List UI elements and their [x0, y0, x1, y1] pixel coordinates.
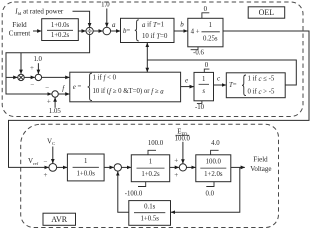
- wire Ifd-rated to divider top: [73, 11, 90, 27]
- wire summer2 to block B: [122, 166, 132, 168]
- wire Efd into summer3 top: [182, 142, 184, 164]
- svg-text:1+0.2s: 1+0.2s: [51, 32, 70, 39]
- summer circle 3: [179, 164, 186, 171]
- wire squared branch into multiplier X left: [6, 76, 17, 78]
- OEL label box: [248, 7, 285, 18]
- svg-text:a if T=1: a if T=1: [142, 21, 164, 28]
- svg-text:s: s: [202, 88, 205, 95]
- svg-text:1: 1: [149, 159, 152, 166]
- block D 0.1s/(1+0.5s): [129, 201, 171, 226]
- svg-text:0.0: 0.0: [206, 190, 215, 197]
- svg-text:100.0: 100.0: [175, 135, 191, 142]
- wire 1.0 into multiplier: [106, 9, 108, 27]
- limit upper 0: [204, 69, 209, 72]
- svg-text:-100.0: -100.0: [125, 190, 143, 197]
- svg-text:−: −: [30, 80, 34, 88]
- summer circle lower (1.05 comparison): [52, 91, 58, 97]
- svg-text:+: +: [47, 98, 51, 106]
- block integrator 1/s: [194, 72, 214, 100]
- limit lower -10: [197, 101, 202, 104]
- svg-text:1.0: 1.0: [101, 1, 110, 8]
- svg-text:b=: b=: [123, 27, 130, 34]
- svg-text:1+2.0s: 1+2.0s: [204, 171, 223, 178]
- svg-text:10 if T=0: 10 if T=0: [142, 33, 168, 40]
- svg-text:1+0.2s: 1+0.2s: [141, 171, 160, 178]
- wire 1.05 into lower summer: [54, 98, 56, 108]
- svg-text:0: 0: [205, 62, 209, 69]
- wire feedback block D to summer2 bottom: [118, 172, 129, 213]
- block OEL PI 4+1/0.25s: [188, 18, 223, 47]
- svg-text:Voltage: Voltage: [250, 165, 271, 173]
- svg-text:10 if (f ≥ 0 &T=0) or f ≥ a: 10 if (f ≥ 0 &T=0) or f ≥ a: [93, 88, 165, 95]
- svg-text:Ifd at rated power: Ifd at rated power: [14, 8, 64, 16]
- svg-text:4 +: 4 +: [191, 29, 200, 36]
- limit lower 0.0: [206, 182, 214, 187]
- summer circle 2: [114, 164, 121, 171]
- wire X to summer: [24, 76, 35, 78]
- block C 100/(1+2.0s): [196, 155, 231, 182]
- svg-text:1.05: 1.05: [49, 108, 61, 115]
- limit upper 100.0: [148, 150, 156, 155]
- svg-text:T=: T=: [229, 82, 237, 89]
- wire summer to block e: [42, 76, 70, 78]
- limit lower -100.0: [138, 182, 146, 187]
- svg-text:+: +: [174, 171, 178, 179]
- block e logic: [70, 72, 181, 102]
- svg-text:b: b: [180, 21, 184, 29]
- svg-text:−: −: [45, 84, 49, 92]
- block b logic: [121, 18, 175, 42]
- svg-text:+: +: [174, 156, 178, 164]
- wire OEL output to Vref summer: [9, 31, 310, 167]
- multiplier X circle: [18, 74, 24, 80]
- wire Vc into summer top: [52, 147, 54, 164]
- svg-text:4.0: 4.0: [211, 140, 220, 147]
- wire summer to block A: [57, 166, 67, 168]
- svg-text:VC: VC: [47, 137, 55, 145]
- svg-text:Field: Field: [253, 155, 268, 163]
- limit upper 0: [202, 13, 209, 18]
- svg-text:1.0: 1.0: [33, 56, 42, 63]
- svg-text:1: 1: [202, 76, 205, 83]
- wire T into block e top: [146, 60, 148, 72]
- wire b to PI block: [174, 30, 188, 32]
- block A 1/(1+0.0s): [67, 154, 104, 181]
- wire squared branch into multiplier X top: [20, 53, 22, 74]
- svg-text:0 if c > -5: 0 if c > -5: [248, 88, 275, 95]
- svg-text:1+0.5s: 1+0.5s: [141, 216, 160, 223]
- wire summer3 to block C: [187, 166, 196, 168]
- limit upper 4.0: [211, 150, 219, 155]
- wire f into block e: [58, 93, 69, 95]
- svg-text:1+0.0s: 1+0.0s: [77, 170, 96, 177]
- svg-text:Current: Current: [9, 29, 30, 37]
- wire block B to summer3: [170, 166, 179, 168]
- wire divider to multiplier: [93, 30, 103, 32]
- svg-text:1: 1: [84, 158, 87, 165]
- svg-text:-0.6: -0.6: [193, 50, 204, 57]
- multiplier circle: [103, 27, 111, 35]
- svg-text:+: +: [30, 64, 34, 72]
- limit lower -0.6: [191, 47, 198, 50]
- wire T feedback horizontal: [147, 60, 296, 85]
- wire output tap to feedback block D: [171, 167, 240, 212]
- svg-text:1 if c ≤ -5: 1 if c ≤ -5: [248, 76, 275, 83]
- summer circle (1.0 - square): [35, 74, 41, 80]
- svg-text:a: a: [112, 21, 116, 29]
- wire T into block b bottom: [146, 43, 148, 60]
- svg-text:−: −: [44, 158, 48, 166]
- svg-text:f: f: [62, 84, 65, 92]
- svg-text:0.1s: 0.1s: [144, 203, 155, 210]
- svg-text:e: e: [185, 77, 188, 85]
- svg-text:OEL: OEL: [259, 8, 275, 17]
- svg-text:0.25s: 0.25s: [203, 35, 218, 42]
- AVR label box: [43, 213, 76, 225]
- AVR dashed boundary: [21, 124, 279, 227]
- svg-text:Vref: Vref: [28, 157, 39, 165]
- wire e into integrator: [181, 86, 194, 88]
- svg-text:1+0.0s: 1+0.0s: [51, 22, 70, 29]
- wire field current into lead-lag: [33, 30, 41, 32]
- summer circle Vref: [49, 164, 57, 172]
- svg-text:-10: -10: [195, 104, 205, 111]
- svg-text:c: c: [217, 75, 221, 83]
- wire block A to summer2: [104, 166, 114, 168]
- wire a into block b: [111, 30, 121, 32]
- divider circle: [86, 27, 93, 34]
- svg-text:Field: Field: [12, 21, 27, 29]
- svg-text:100.0: 100.0: [148, 140, 164, 147]
- block B 1/(1+0.2s): [131, 155, 169, 182]
- wire c into block T: [214, 84, 227, 86]
- svg-text:0: 0: [204, 6, 208, 13]
- wire divider tap down-left: [6, 35, 90, 94]
- wire 1.0 into summer top: [37, 63, 39, 74]
- svg-text:1: 1: [209, 22, 212, 29]
- svg-text:+: +: [44, 171, 48, 179]
- OEL dashed boundary: [2, 2, 303, 117]
- wire output Field Voltage: [231, 166, 245, 168]
- svg-text:e =: e =: [73, 84, 82, 91]
- wire lead-lag to divider: [78, 30, 85, 32]
- svg-text:1 if f < 0: 1 if f < 0: [93, 75, 117, 82]
- block T logic: [226, 73, 285, 98]
- svg-text:AVR: AVR: [51, 215, 68, 224]
- svg-text:100.0: 100.0: [206, 159, 222, 166]
- block lead-lag (1+0.0s)/(1+0.2s): [42, 19, 79, 41]
